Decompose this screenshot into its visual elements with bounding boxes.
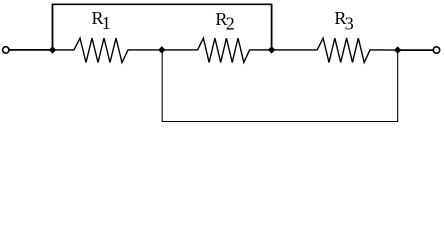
svg-text:1: 1 [102, 13, 111, 33]
svg-text:3: 3 [345, 13, 354, 33]
svg-text:2: 2 [226, 13, 235, 33]
